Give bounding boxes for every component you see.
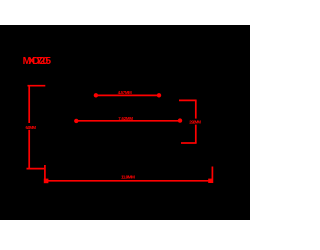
svg-text:MXD7205: MXD7205	[23, 56, 52, 67]
svg-text:4.57MM: 4.57MM	[118, 90, 132, 95]
svg-text:11.9MM: 11.9MM	[121, 174, 135, 180]
svg-text:6.0MM: 6.0MM	[26, 125, 37, 130]
svg-text:2.92MM: 2.92MM	[189, 120, 201, 125]
svg-text:7.62MM: 7.62MM	[118, 116, 133, 121]
